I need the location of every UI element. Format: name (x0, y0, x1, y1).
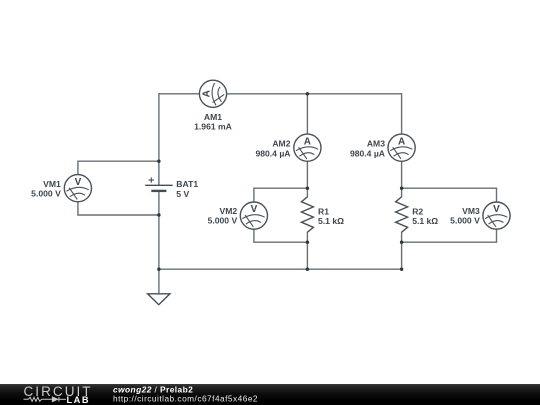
wire VM2 top lead to R1 top node (254, 188, 308, 202)
wire R2 bottom to ground bus (401, 232, 403, 269)
resistor R2 (396, 197, 408, 232)
node at R1 bottom (306, 241, 309, 244)
logo resistor-diode glyph (24, 397, 67, 402)
ammeter AM2 (294, 134, 321, 161)
svg-text:VM1: VM1 (43, 179, 61, 189)
svg-text:BAT1: BAT1 (176, 179, 198, 189)
node at VM1 bottom / left wire (157, 213, 160, 216)
node at VM1 top / left wire (157, 160, 160, 163)
svg-text:5 V: 5 V (176, 189, 189, 199)
voltmeter VM1 (64, 175, 91, 202)
svg-text:5.000 V: 5.000 V (208, 216, 238, 226)
node at R2 bottom (400, 241, 403, 244)
svg-text:5.1 kΩ: 5.1 kΩ (412, 216, 438, 226)
wire right branch through AM3 down to R2 (401, 93, 403, 197)
svg-text:VM3: VM3 (462, 206, 480, 216)
wire battery - terminal down to ground (158, 191, 160, 294)
svg-text:AM3: AM3 (367, 139, 385, 149)
wire R2 bottom node to VM3 bottom lead (402, 229, 497, 243)
svg-text:1.961 mA: 1.961 mA (194, 122, 232, 132)
node at R1 top (306, 187, 309, 190)
svg-text:AM2: AM2 (272, 139, 290, 149)
wire R2 top node to VM3 top lead (402, 188, 497, 202)
wire ground bus (159, 268, 402, 270)
ground (148, 294, 170, 305)
wire VM2 bottom lead to R1 bottom node (254, 229, 308, 243)
svg-text:V: V (251, 204, 258, 215)
footer bar (0, 384, 540, 405)
wire middle branch through AM2 down to R1 (306, 94, 308, 197)
ammeter AM3 (388, 134, 415, 161)
svg-text:5.000 V: 5.000 V (31, 189, 61, 199)
wire VM1 bottom lead to left vertical (78, 201, 159, 215)
svg-text:AM1: AM1 (204, 112, 222, 122)
node at left wire / ground bus (157, 268, 160, 271)
battery BAT1 (145, 177, 172, 191)
resistor R1 (301, 197, 313, 232)
wire R1 bottom to ground bus (306, 232, 308, 269)
wire top bus from left branch to right branch (159, 93, 402, 95)
node at right branch / ground bus (400, 268, 403, 271)
svg-text:R1: R1 (318, 206, 329, 216)
svg-text:V: V (75, 177, 82, 188)
svg-text:5.000 V: 5.000 V (450, 216, 480, 226)
svg-text:R2: R2 (412, 206, 423, 216)
node at R2 top (400, 187, 403, 190)
voltmeter VM3 (483, 202, 510, 229)
svg-text:5.1 kΩ: 5.1 kΩ (318, 216, 344, 226)
voltmeter VM2 (240, 202, 267, 229)
svg-text:A: A (202, 90, 213, 97)
svg-text:http://circuitlab.com/c67f4af5: http://circuitlab.com/c67f4af5x46e2 (113, 394, 258, 404)
svg-text:LAB: LAB (67, 395, 91, 405)
node at top bus / middle branch (306, 92, 309, 95)
svg-text:V: V (493, 204, 500, 215)
wire VM1 top lead to left vertical (78, 161, 159, 175)
ammeter AM1 (199, 80, 226, 107)
node at middle branch / ground bus (306, 268, 309, 271)
svg-text:980.4 µA: 980.4 µA (255, 148, 290, 158)
svg-text:VM2: VM2 (220, 206, 238, 216)
svg-text:A: A (304, 136, 311, 147)
svg-text:A: A (398, 136, 405, 147)
wire left vertical from top bus to battery + terminal (158, 93, 160, 185)
svg-text:980.4 µA: 980.4 µA (350, 148, 385, 158)
